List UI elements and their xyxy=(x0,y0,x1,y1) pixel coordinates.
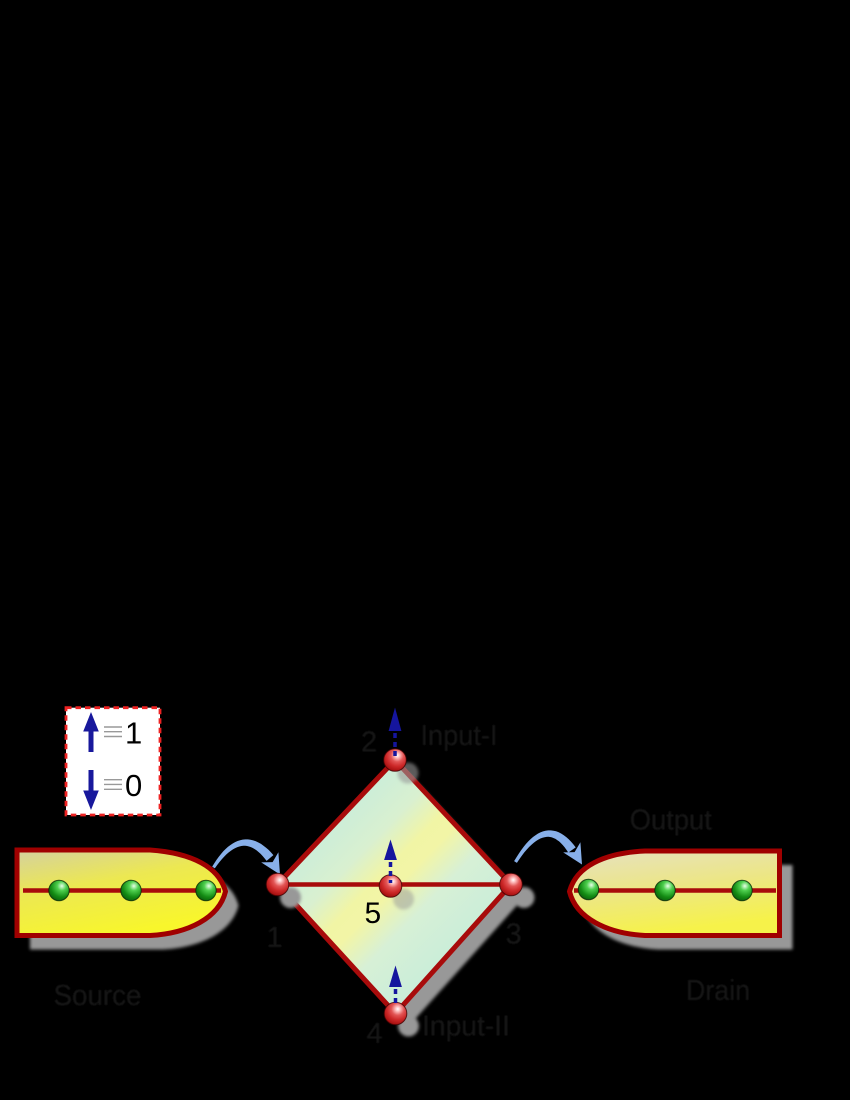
svg-text:Input-II: Input-II xyxy=(422,1011,510,1043)
svg-text:1: 1 xyxy=(267,922,283,954)
svg-text:Input-I: Input-I xyxy=(421,720,498,752)
drain lead shadow xyxy=(583,865,793,950)
spin arrow center xyxy=(384,840,397,884)
dot shadow right xyxy=(514,887,535,908)
electron e5 xyxy=(655,880,675,900)
svg-text:Output: Output xyxy=(630,805,712,837)
dot 1 (left vertex) xyxy=(266,873,289,896)
electron e6 xyxy=(732,880,752,900)
legend equiv 1 xyxy=(104,727,122,737)
source lead xyxy=(17,850,226,936)
svg-text:3: 3 xyxy=(506,919,522,951)
electron e4 xyxy=(578,879,598,899)
svg-text:Source: Source xyxy=(54,980,142,1012)
electron e2 xyxy=(121,880,141,900)
drain wire xyxy=(574,888,776,893)
dot shadow bottom xyxy=(398,1016,419,1037)
svg-text:0: 0 xyxy=(125,768,142,803)
dot shadow top xyxy=(398,763,419,784)
diamond wire xyxy=(279,882,509,887)
svg-text:5: 5 xyxy=(365,897,382,930)
legend up arrow xyxy=(83,712,99,752)
dot 2 (top vertex) xyxy=(384,749,407,772)
electron e1 xyxy=(49,880,69,900)
drain lead xyxy=(570,851,780,936)
dot shadow left xyxy=(280,887,301,908)
source wire xyxy=(23,888,221,893)
svg-text:1: 1 xyxy=(125,716,142,751)
dot shadow center xyxy=(393,889,414,910)
svg-text:2: 2 xyxy=(361,727,377,759)
dot 3 (right vertex) xyxy=(500,873,523,896)
svg-text:Drain: Drain xyxy=(686,975,750,1007)
legend box xyxy=(66,708,160,815)
legend equiv 0 xyxy=(104,780,122,790)
spin arrow top xyxy=(389,708,402,757)
dot 5 (center) xyxy=(379,875,402,898)
electron e3 xyxy=(196,880,216,900)
spin arrow bottom xyxy=(389,966,402,1008)
hop arrow right xyxy=(514,830,582,864)
diamond body xyxy=(278,760,512,1014)
dot 4 (bottom vertex) xyxy=(384,1002,407,1025)
legend down arrow xyxy=(83,770,99,810)
diamond shadow xyxy=(291,773,525,1027)
svg-text:4: 4 xyxy=(367,1018,383,1050)
hop arrow left xyxy=(212,839,280,874)
source lead shadow xyxy=(30,864,239,950)
